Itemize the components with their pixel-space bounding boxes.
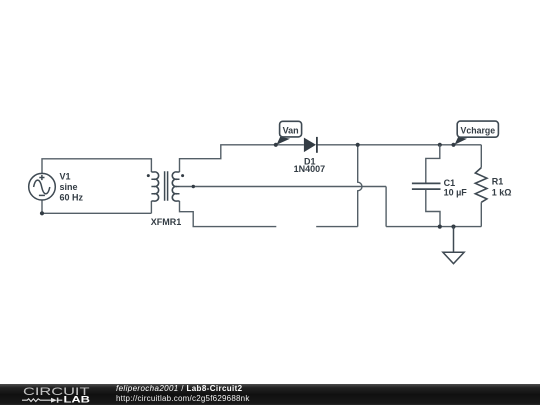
voltage source V1 bbox=[29, 173, 56, 200]
svg-text:R1: R1 bbox=[492, 177, 504, 187]
label V1 value bbox=[60, 172, 84, 203]
svg-text:10 µF: 10 µF bbox=[444, 187, 468, 197]
transformer XFMR1 core bbox=[165, 171, 168, 200]
wire center tap net bbox=[180, 186, 387, 188]
svg-text:V1: V1 bbox=[60, 172, 71, 182]
wire bottom segment to vertical bbox=[316, 226, 358, 228]
transformer XFMR1 primary phase dot bbox=[147, 174, 150, 177]
svg-text:LAB: LAB bbox=[64, 395, 91, 405]
wire V1 top to XFMR1 primary top bbox=[42, 159, 151, 174]
junction dot C1 bottom bbox=[438, 225, 442, 229]
resistor R1 bbox=[475, 145, 487, 227]
svg-text:60 Hz: 60 Hz bbox=[60, 192, 84, 202]
transformer XFMR1 primary winding bbox=[151, 172, 158, 201]
wire D1 cathode to R1 top bbox=[317, 144, 481, 146]
wire XFMR1 primary bottom lead bbox=[150, 201, 152, 213]
node dot V1 bottom bbox=[40, 211, 44, 215]
flag Van box bbox=[280, 121, 302, 137]
junction dot C1 top bbox=[438, 143, 442, 147]
junction dot D1 output bbox=[356, 143, 360, 147]
flag Vcharge pointer bbox=[455, 137, 468, 145]
svg-text:feliperocha2001 / Lab8-Circuit: feliperocha2001 / Lab8-Circuit2 bbox=[116, 384, 243, 393]
wire XFMR1 secondary bottom stub bbox=[180, 201, 277, 227]
wire vertical from D1 output junction with hop over tap wire bbox=[358, 145, 362, 227]
wire V1 bottom to XFMR1 primary bottom bbox=[42, 200, 151, 213]
svg-text:Vcharge: Vcharge bbox=[461, 125, 496, 135]
svg-text:Van: Van bbox=[283, 125, 299, 135]
diode D1 bbox=[304, 137, 317, 153]
footer bar bbox=[0, 384, 540, 405]
transformer XFMR1 secondary winding bbox=[172, 172, 179, 201]
flag Van pointer bbox=[277, 137, 291, 145]
junction dot ground node bbox=[451, 225, 455, 229]
node dot Van probe bbox=[274, 143, 278, 147]
svg-text:http://circuitlab.com/c2g5f629: http://circuitlab.com/c2g5f629688nk bbox=[116, 394, 250, 403]
footer logo schematic line bbox=[22, 398, 62, 403]
wire bottom net to R1 bottom bbox=[386, 226, 481, 228]
flag Vcharge box bbox=[457, 121, 498, 137]
junction dot Vcharge bbox=[451, 143, 455, 147]
svg-text:1 kΩ: 1 kΩ bbox=[492, 188, 512, 198]
transformer XFMR1 secondary phase dot bbox=[181, 174, 184, 177]
svg-text:sine: sine bbox=[60, 182, 78, 192]
capacitor C1 bbox=[412, 145, 441, 227]
svg-text:XFMR1: XFMR1 bbox=[151, 217, 182, 227]
wire tap net down bbox=[385, 187, 387, 227]
ground bbox=[443, 227, 464, 264]
wire XFMR1 secondary top to diode D1 anode bbox=[180, 145, 304, 172]
svg-text:1N4007: 1N4007 bbox=[294, 164, 326, 174]
node dot center tap bbox=[192, 185, 195, 188]
